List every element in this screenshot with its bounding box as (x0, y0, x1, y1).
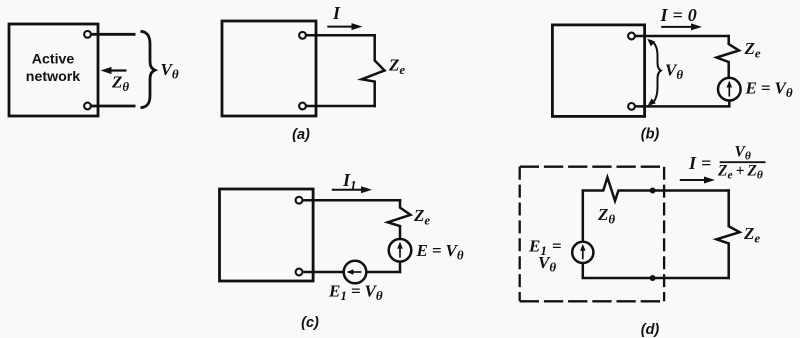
impedance label Ze (d) (743, 224, 760, 246)
network box (a) (222, 21, 316, 116)
brace for V_theta (141, 31, 155, 107)
caption (c) (301, 315, 319, 331)
caption (d) (641, 322, 660, 338)
source label E1 = V_theta (c) (328, 282, 383, 304)
svg-text:I=0: I=0 (660, 5, 697, 25)
wire (bottom left segment, c) (302, 271, 343, 274)
svg-text:(a): (a) (292, 127, 310, 143)
svg-text:(c): (c) (301, 315, 319, 331)
junction dot (bottom, d) (650, 275, 656, 281)
node label V_theta (b) (665, 61, 683, 83)
svg-text:I: I (332, 3, 341, 23)
caption (a) (292, 127, 310, 143)
source label E = V_theta (b) (745, 79, 793, 101)
wire (right vertical lower + bottom, b) (635, 101, 729, 107)
wire (top, b) (635, 35, 730, 38)
wire (source top to top rail, d) (583, 191, 605, 242)
impedance label Ze (b) (744, 39, 761, 61)
wire (top, c) (302, 199, 401, 202)
dashed equivalent-source box (d) (520, 167, 664, 302)
current arrow (c) (332, 186, 372, 193)
label "Active network" (26, 52, 81, 86)
wire + impedance Ze (right vertical upper, c) (388, 199, 411, 239)
network box (b) (552, 25, 644, 117)
current equation I = V_theta / (Ze + Z_theta) (d) (688, 144, 766, 182)
wire (top lead, fig.1) (90, 33, 136, 36)
network box (c) (220, 189, 314, 281)
wire (right vertical with impedance Ze, a) (362, 34, 385, 107)
wire + impedance Ze (right vertical, d) (717, 189, 740, 279)
current label I = 0 (b) (660, 5, 697, 25)
svg-text:E=Vθ: E=Vθ (745, 79, 793, 101)
svg-text:network: network (26, 69, 81, 85)
terminal (top, c) (296, 197, 303, 204)
caption (b) (641, 127, 660, 143)
wire (bottom right segment, c) (366, 271, 401, 274)
junction dot (top, d) (650, 188, 656, 194)
current label I (a) (332, 3, 341, 23)
impedance label Z_theta (fig.1) (111, 73, 129, 95)
source E (c) (389, 239, 412, 262)
wire (source bottom to bottom rail, d) (582, 263, 585, 279)
voltage arc V_theta (b) (647, 39, 661, 106)
source E1 (d) (572, 242, 593, 263)
impedance label Ze (c) (413, 206, 430, 228)
arrow into network (Z_theta direction) (101, 67, 127, 74)
current label I1 (c) (342, 170, 357, 193)
source E (b) (718, 78, 741, 101)
svg-text:E1=Vθ: E1=Vθ (328, 282, 383, 304)
terminal (top, fig.1) (84, 31, 91, 38)
active network box (9, 24, 98, 116)
current arrow (a) (327, 23, 362, 30)
impedance label Z_theta (d) (597, 205, 615, 227)
terminal (bottom, fig.1) (84, 103, 91, 110)
source label E1 = V_theta (d) (528, 237, 562, 275)
wire (bottom, a) (306, 105, 376, 108)
impedance Z_theta (horizontal zigzag, d) (603, 177, 618, 200)
wire (E bottom to bottom rail, c) (399, 262, 402, 274)
source label E = V_theta (c) (416, 241, 464, 263)
wire (top, a) (306, 34, 376, 37)
svg-text:E=Vθ: E=Vθ (416, 241, 464, 263)
svg-text:Active: Active (32, 52, 75, 68)
wire (bottom lead, fig.1) (90, 105, 136, 108)
terminal (top, b) (628, 33, 635, 40)
source E1 (c) (344, 261, 367, 284)
wire (top rail to right corner, d) (618, 189, 731, 192)
current arrow (d) (680, 177, 715, 184)
wire + impedance Ze (right vertical upper, b) (717, 35, 740, 78)
node label V_theta (fig.1) (161, 60, 179, 82)
terminal (top, a) (299, 32, 306, 39)
wire (bottom rail, d) (582, 277, 730, 280)
svg-text:(d): (d) (641, 322, 660, 338)
current arrow (b) (661, 23, 702, 30)
svg-text:(b): (b) (641, 127, 660, 143)
terminal (bottom, c) (296, 269, 303, 276)
svg-text:Ze+Zθ: Ze+Zθ (717, 163, 763, 182)
impedance label Ze (a) (388, 56, 405, 78)
terminal (bottom, b) (628, 103, 635, 110)
terminal (bottom, a) (299, 103, 306, 110)
